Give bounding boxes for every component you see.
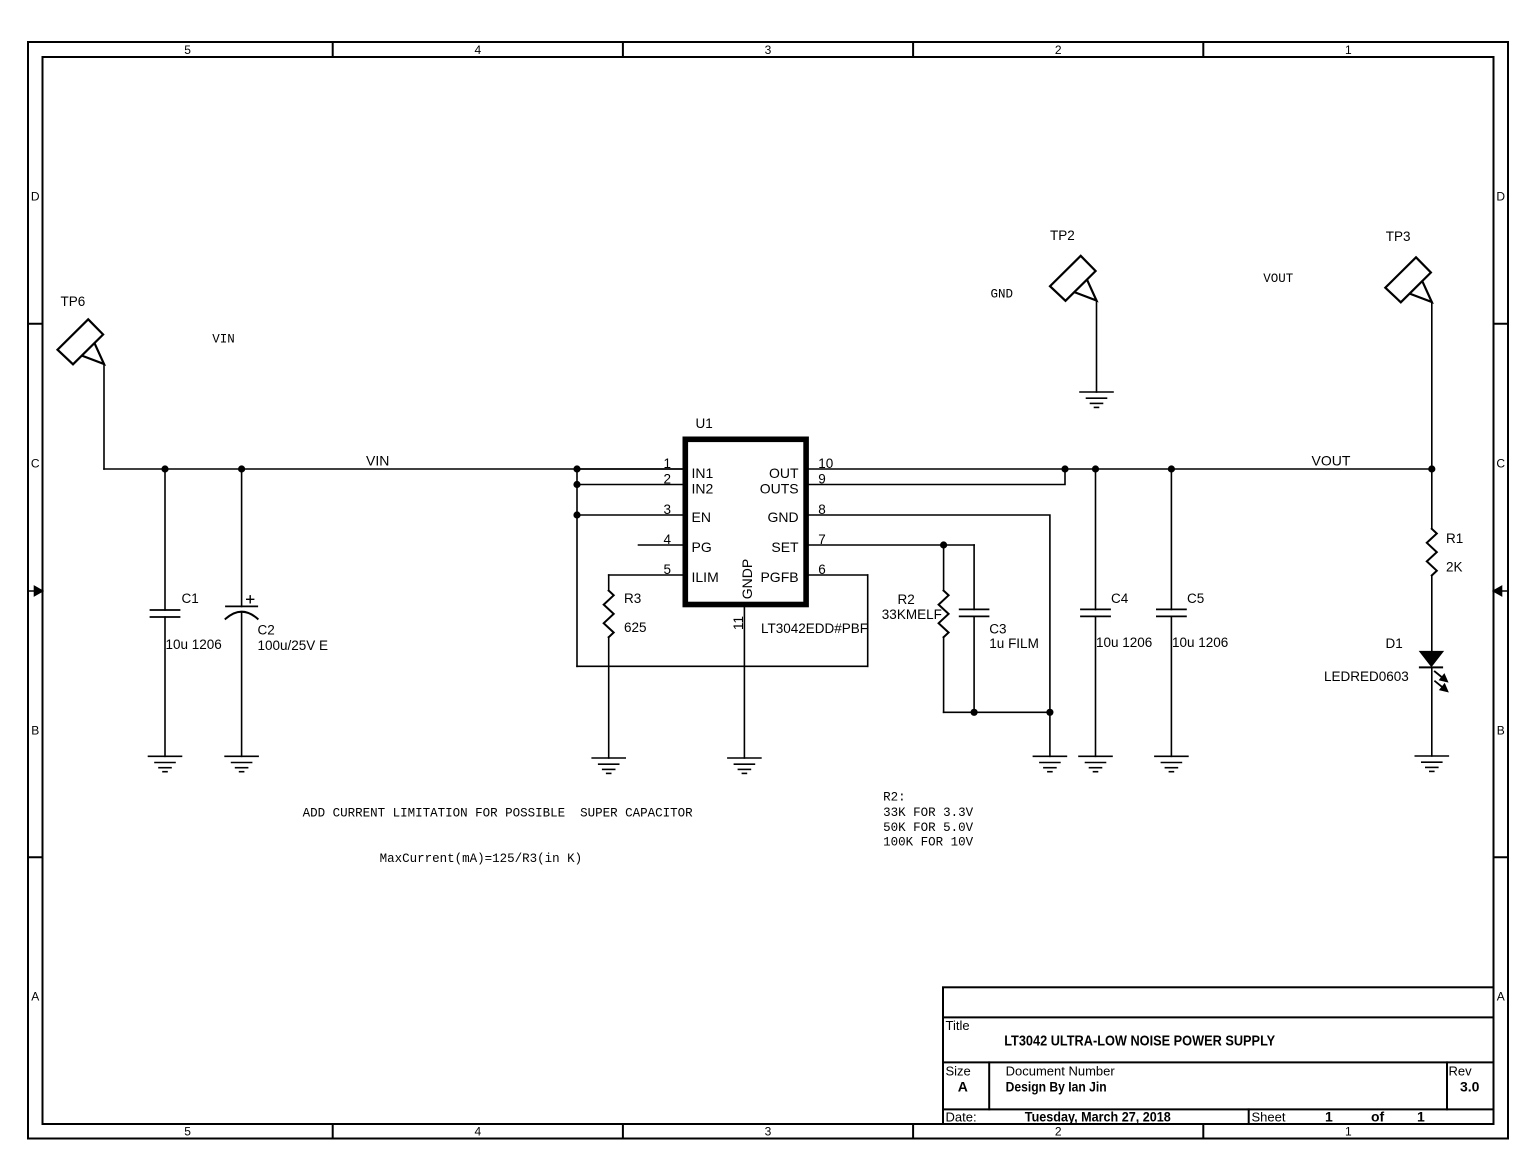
U1 pin numbers: [663, 456, 671, 577]
svg-text:Design By Ian Jin: Design By Ian Jin: [1006, 1079, 1107, 1095]
svg-text:1: 1: [1345, 43, 1352, 57]
svg-text:50K FOR 5.0V: 50K FOR 5.0V: [883, 821, 974, 835]
wire VOUT rail: [809, 468, 1432, 470]
ground (GNDP): [728, 758, 761, 773]
svg-text:9: 9: [818, 472, 826, 487]
test point TP2: [1050, 256, 1097, 392]
svg-text:C5: C5: [1187, 591, 1204, 606]
svg-text:C4: C4: [1111, 591, 1129, 606]
svg-text:OUTS: OUTS: [760, 480, 799, 496]
capacitor C3: [960, 545, 989, 712]
svg-text:1: 1: [663, 456, 671, 471]
ground (D1): [1415, 756, 1448, 771]
resistor R1: [1427, 469, 1437, 652]
svg-text:Title: Title: [946, 1018, 970, 1033]
title block frame: [943, 987, 1494, 1124]
svg-text:LT3042EDD#PBF: LT3042EDD#PBF: [761, 621, 868, 636]
svg-text:GND: GND: [991, 287, 1014, 301]
svg-text:D: D: [1496, 189, 1505, 203]
svg-text:VOUT: VOUT: [1312, 452, 1351, 468]
capacitor C2 (polarized): [226, 469, 258, 756]
svg-text:C2: C2: [258, 622, 275, 637]
svg-text:TP3: TP3: [1386, 229, 1411, 244]
wire pin4 PG stub: [639, 544, 683, 546]
svg-text:IN1: IN1: [692, 465, 714, 481]
ground (GND pin net): [1033, 756, 1066, 771]
svg-text:A: A: [958, 1079, 968, 1095]
svg-text:VIN: VIN: [212, 332, 235, 346]
wire PGFB vertical: [867, 575, 869, 666]
svg-text:A: A: [31, 989, 39, 1003]
svg-text:3: 3: [765, 43, 772, 57]
ground (C5): [1155, 756, 1188, 771]
svg-text:4: 4: [663, 532, 671, 547]
wire pin7 SET: [809, 544, 974, 546]
svg-text:7: 7: [818, 532, 826, 547]
svg-text:8: 8: [818, 502, 826, 517]
svg-text:MaxCurrent(mA)=125/R3(in K): MaxCurrent(mA)=125/R3(in K): [380, 852, 583, 866]
svg-text:LEDRED0603: LEDRED0603: [1324, 669, 1409, 684]
wire VIN rail: [104, 468, 683, 470]
note R2 options: [883, 791, 974, 850]
ground (C4): [1079, 756, 1112, 771]
svg-text:4: 4: [474, 1125, 481, 1139]
svg-text:VIN: VIN: [366, 452, 389, 468]
svg-text:100K FOR 10V: 100K FOR 10V: [883, 836, 974, 850]
svg-text:10u 1206: 10u 1206: [1096, 635, 1152, 650]
svg-text:1: 1: [1325, 1108, 1333, 1124]
svg-text:2K: 2K: [1446, 560, 1463, 575]
svg-text:Document Number: Document Number: [1006, 1064, 1116, 1079]
svg-text:VOUT: VOUT: [1263, 272, 1294, 286]
resistor R3: [604, 575, 614, 758]
IC U1 box: [685, 439, 806, 604]
svg-text:R2: R2: [898, 592, 915, 607]
svg-text:1: 1: [1417, 1108, 1425, 1124]
capacitor C4: [1081, 469, 1110, 756]
svg-text:B: B: [1497, 723, 1505, 737]
test point TP6: [58, 319, 105, 469]
resistor R2: [939, 545, 949, 712]
svg-text:C: C: [31, 456, 40, 470]
svg-text:Date:: Date:: [946, 1109, 977, 1124]
wire pin8 GND: [809, 515, 1050, 756]
svg-text:GND: GND: [767, 509, 798, 525]
svg-text:33KMELF: 33KMELF: [882, 607, 942, 622]
svg-text:100u/25V E: 100u/25V E: [258, 638, 329, 653]
svg-text:1u FILM: 1u FILM: [989, 636, 1039, 651]
svg-text:B: B: [31, 723, 39, 737]
svg-text:Size: Size: [946, 1064, 971, 1079]
LED D1: [1420, 652, 1448, 756]
svg-text:6: 6: [818, 562, 826, 577]
ground (C1): [149, 756, 182, 771]
svg-text:3: 3: [765, 1125, 772, 1139]
svg-text:2: 2: [663, 472, 671, 487]
junction dots: [161, 465, 1435, 716]
wire SET net bottom: [944, 711, 1050, 713]
svg-text:Rev: Rev: [1449, 1064, 1473, 1079]
svg-text:R2:: R2:: [883, 791, 906, 805]
svg-text:11: 11: [731, 616, 746, 630]
wire pin11 GNDP: [743, 607, 745, 758]
svg-text:OUT: OUT: [769, 465, 799, 481]
title block text: [946, 1018, 1480, 1124]
svg-text:of: of: [1371, 1108, 1385, 1124]
svg-text:625: 625: [624, 620, 647, 635]
wire pin9 OUTS: [809, 469, 1065, 485]
wire pin6 PGFB: [809, 574, 868, 576]
svg-text:D1: D1: [1386, 636, 1403, 651]
svg-text:2: 2: [1055, 1125, 1062, 1139]
svg-text:D: D: [31, 189, 40, 203]
svg-text:10u 1206: 10u 1206: [1172, 635, 1228, 650]
svg-text:4: 4: [474, 43, 481, 57]
svg-text:5: 5: [184, 1125, 191, 1139]
svg-text:ILIM: ILIM: [692, 569, 719, 585]
svg-text:R3: R3: [624, 591, 641, 606]
svg-text:33K FOR 3.3V: 33K FOR 3.3V: [883, 806, 974, 820]
U1 pin names: [692, 465, 719, 585]
svg-text:3.0: 3.0: [1460, 1079, 1480, 1095]
svg-text:PG: PG: [692, 539, 712, 555]
wire pin3 EN: [577, 514, 683, 516]
svg-text:EN: EN: [692, 509, 711, 525]
wire VIN vertical to EN/PGFB return: [576, 469, 578, 666]
border mid arrows: [28, 587, 1508, 596]
wire pin1 IN1: [577, 468, 683, 470]
svg-text:LT3042 ULTRA-LOW NOISE POWER S: LT3042 ULTRA-LOW NOISE POWER SUPPLY: [1004, 1033, 1275, 1050]
ground (C2): [225, 756, 258, 771]
svg-text:ADD CURRENT LIMITATION FOR POS: ADD CURRENT LIMITATION FOR POSSIBLE SUPE…: [303, 807, 694, 821]
test point TP3: [1385, 257, 1432, 469]
wire bottom return to PGFB: [577, 665, 868, 667]
ground (R3): [592, 758, 625, 773]
svg-text:5: 5: [663, 562, 671, 577]
capacitor C1: [151, 469, 180, 756]
svg-text:2: 2: [1055, 43, 1062, 57]
svg-text:1: 1: [1345, 1125, 1352, 1139]
svg-text:10u 1206: 10u 1206: [166, 637, 222, 652]
svg-text:A: A: [1497, 989, 1505, 1003]
svg-text:PGFB: PGFB: [760, 569, 798, 585]
capacitor C5: [1157, 469, 1186, 756]
svg-text:10: 10: [818, 456, 833, 471]
svg-text:SET: SET: [771, 539, 799, 555]
svg-text:C: C: [1496, 456, 1505, 470]
wire pin5 ILIM: [609, 574, 683, 576]
svg-text:GNDP: GNDP: [739, 559, 755, 599]
svg-text:R1: R1: [1446, 531, 1463, 546]
svg-text:5: 5: [184, 43, 191, 57]
svg-text:TP2: TP2: [1050, 228, 1075, 243]
svg-text:C1: C1: [182, 591, 199, 606]
svg-text:U1: U1: [696, 416, 713, 431]
svg-text:TP6: TP6: [61, 294, 86, 309]
svg-text:Sheet: Sheet: [1252, 1109, 1286, 1124]
svg-text:IN2: IN2: [692, 480, 714, 496]
wire pin2 IN2: [577, 484, 683, 486]
ground (TP2): [1080, 392, 1113, 407]
svg-text:3: 3: [663, 502, 671, 517]
svg-text:C3: C3: [989, 621, 1006, 636]
svg-text:Tuesday, March 27, 2018: Tuesday, March 27, 2018: [1025, 1108, 1171, 1124]
